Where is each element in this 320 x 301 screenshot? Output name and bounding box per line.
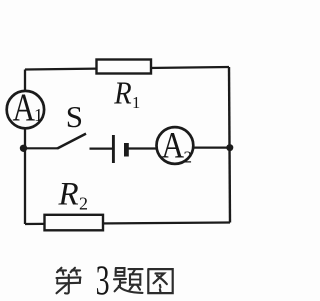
ammeter A1 circle — [7, 91, 44, 128]
wire A2 to right vertical — [194, 147, 230, 149]
caption character 题 — [114, 268, 143, 293]
battery long plate — [112, 135, 115, 163]
wire battery to A2 — [129, 147, 158, 149]
wire middle left segment — [25, 147, 57, 149]
svg-text:3: 3 — [96, 256, 110, 301]
resistor R2 — [45, 215, 104, 231]
svg-text:A: A — [12, 86, 35, 129]
wire switch contact to battery — [90, 148, 113, 150]
battery short thick plate — [124, 143, 129, 157]
wire left vertical — [24, 70, 26, 225]
wire top — [25, 67, 229, 70]
caption character 图 — [148, 269, 172, 293]
svg-text:A: A — [161, 125, 184, 166]
svg-text:2: 2 — [79, 194, 88, 214]
svg-text:R: R — [113, 75, 131, 111]
svg-text:1: 1 — [132, 93, 140, 112]
node junction dot left — [20, 145, 27, 152]
switch S blade — [57, 134, 86, 149]
svg-text:2: 2 — [184, 147, 193, 166]
ammeter A2 circle — [157, 127, 194, 164]
svg-text:R: R — [58, 177, 79, 213]
svg-text:S: S — [66, 99, 83, 134]
resistor R1 — [97, 60, 152, 74]
wire bottom — [25, 223, 230, 225]
caption character 第 — [57, 268, 81, 294]
wire right vertical — [229, 67, 230, 223]
svg-text:1: 1 — [34, 105, 43, 125]
node junction dot right — [226, 144, 233, 151]
